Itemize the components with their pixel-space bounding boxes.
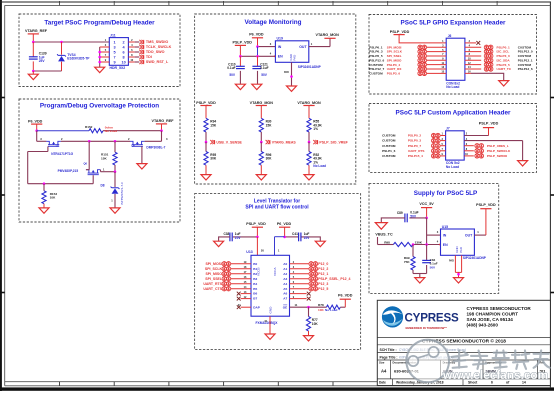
- svg-text:Voltage Monitoring: Voltage Monitoring: [245, 19, 302, 26]
- node SPI_MISO: [205, 271, 251, 276]
- svg-text:10K: 10K: [312, 322, 319, 326]
- wire Q6 source to bottom net: [28, 175, 94, 184]
- svg-text:15K: 15K: [266, 123, 273, 127]
- wire gnd bus pins 3 5 7 9: [100, 47, 110, 67]
- svg-text:PSoC 5LP Custom Application He: PSoC 5LP Custom Application Header: [396, 110, 511, 117]
- svg-text:C38: C38: [223, 232, 229, 236]
- resistor R96: [259, 142, 272, 175]
- svg-text:P12_2: P12_2: [318, 267, 328, 271]
- svg-text:PSLP_XRES_L: PSLP_XRES_L: [487, 144, 509, 148]
- svg-text:P12_0: P12_0: [318, 262, 328, 266]
- node PSLP0_7: [382, 143, 446, 148]
- svg-text:CYPRESS: CYPRESS: [405, 311, 459, 324]
- junction: [290, 75, 293, 78]
- svg-text:www.elecfans.com: www.elecfans.com: [442, 368, 548, 382]
- date row: [379, 379, 526, 386]
- junction: [256, 236, 259, 239]
- svg-text:PSLP_VDD: PSLP_VDD: [476, 203, 496, 207]
- svg-text:P6_VDD: P6_VDD: [249, 32, 264, 36]
- svg-text:25V: 25V: [39, 59, 46, 63]
- node P6_VDD: [28, 119, 43, 130]
- node PSLP_VDD: [233, 41, 253, 57]
- svg-text:P12_3: P12_3: [318, 282, 328, 286]
- resistor R77: [306, 307, 318, 335]
- node PSLP_VDD: [246, 222, 266, 237]
- junction: [98, 56, 101, 59]
- svg-text:TDI: TDI: [146, 55, 152, 59]
- svg-text:PSLP_VDD: PSLP_VDD: [479, 121, 499, 125]
- svg-text:10: 10: [121, 60, 125, 64]
- transistor Q6: [58, 141, 115, 174]
- svg-text:50V: 50V: [430, 266, 436, 270]
- svg-text:Supply for PSoC 5LP: Supply for PSoC 5LP: [414, 190, 478, 197]
- wire VCC to IN pin: [427, 218, 441, 245]
- svg-text:UART_RTS: UART_RTS: [203, 282, 222, 286]
- svg-text:HDR_5X2: HDR_5X2: [110, 66, 126, 70]
- node PSLP_VDD: [196, 101, 216, 118]
- ground: [28, 71, 38, 80]
- junction: [114, 170, 117, 173]
- node SPI_SSEL: [369, 53, 446, 58]
- svg-text:EMBEDDED IN TOMORROW™: EMBEDDED IN TOMORROW™: [406, 326, 448, 330]
- svg-text:10K: 10K: [318, 308, 324, 312]
- svg-text:CYPRESS SEMICONDUCTOR: CYPRESS SEMICONDUCTOR: [467, 306, 532, 311]
- ground: [214, 241, 224, 246]
- svg-text:Date: Date: [379, 381, 386, 385]
- svg-text:B6: B6: [253, 292, 257, 296]
- op-amp U19 load switch: [270, 37, 322, 69]
- svg-text:198 CHAMPION COURT: 198 CHAMPION COURT: [467, 312, 519, 317]
- node VTARG_MON: [250, 101, 274, 118]
- svg-text:A4: A4: [381, 369, 387, 374]
- svg-text:130K: 130K: [415, 241, 423, 245]
- svg-text:25V: 25V: [304, 236, 311, 240]
- node VTARG_MON: [297, 101, 321, 118]
- svg-text:No Load: No Load: [446, 165, 459, 169]
- wire J7 pin 2 to PSLP_VDD: [464, 133, 488, 136]
- junction: [260, 141, 263, 144]
- svg-text:PSLP15_4: PSLP15_4: [408, 154, 423, 158]
- svg-text:1: 1: [114, 40, 116, 44]
- svg-text:P6_VDD: P6_VDD: [28, 119, 43, 123]
- svg-text:SPI and UART flow control: SPI and UART flow control: [245, 205, 309, 211]
- junction: [98, 51, 101, 54]
- node PSLP0_2: [382, 133, 446, 138]
- svg-text:SPI_MISO: SPI_MISO: [205, 272, 222, 276]
- node P6_VDD: [338, 293, 353, 307]
- section box: Supply for PSoC 5LP: [369, 183, 499, 293]
- node P12_0: [290, 261, 329, 266]
- resistor R152: [37, 125, 162, 133]
- svg-text:Target PSoC Program/Debug Head: Target PSoC Program/Debug Header: [44, 20, 155, 27]
- watermark elecfans: [406, 340, 549, 383]
- wire VTARG to Q8: [161, 131, 163, 142]
- wire to J6 pin 1: [429, 40, 446, 43]
- svg-text:No Load: No Load: [105, 129, 117, 133]
- svg-text:OE: OE: [283, 305, 287, 309]
- svg-text:(408) 943-2600: (408) 943-2600: [467, 323, 499, 328]
- node VBUS_TC: [375, 232, 393, 244]
- svg-text:30K: 30K: [266, 157, 273, 161]
- svg-text:VTARG_MON: VTARG_MON: [297, 101, 321, 105]
- svg-text:5: 5: [114, 50, 116, 54]
- svg-text:10K: 10K: [50, 196, 56, 200]
- diode D8: [101, 172, 124, 208]
- section box: Voltage Monitoring: [195, 14, 356, 184]
- svg-text:PAD: PAD: [459, 247, 463, 253]
- svg-text:OUT: OUT: [299, 45, 307, 49]
- svg-text:B1: B1: [253, 267, 257, 271]
- node PSLP_SIO_VREF: [313, 140, 348, 144]
- svg-text:15K: 15K: [101, 156, 107, 160]
- node PSLP3_0: [465, 53, 532, 58]
- node PSLP_SSEL_P12_4: [290, 276, 351, 281]
- svg-text:A6: A6: [283, 292, 287, 296]
- node VTARG_MEAS: [266, 140, 297, 144]
- node PSLP_SWDIO: [464, 153, 508, 158]
- svg-text:PSLP_SSEL_P12_4: PSLP_SSEL_P12_4: [318, 277, 350, 281]
- capacitor C38: [219, 232, 258, 242]
- svg-text:PSLP12_6: PSLP12_6: [518, 67, 533, 71]
- svg-text:PAD: PAD: [293, 55, 297, 61]
- svg-text:Q7: Q7: [56, 144, 60, 148]
- node UART_RX: [369, 66, 446, 71]
- ground: [304, 175, 314, 180]
- svg-text:U13: U13: [246, 250, 252, 254]
- resistor R151: [101, 141, 117, 171]
- section box: Target PSoC Program/Debug Header: [19, 14, 180, 87]
- capacitor C89: [381, 211, 426, 223]
- connector J6: [446, 34, 465, 89]
- wire VCCA supply: [275, 237, 285, 256]
- resistor R78: [318, 303, 345, 312]
- pin numbers J11 left: [105, 38, 107, 62]
- ground: [256, 175, 266, 180]
- svg-text:PMV48XP,215: PMV48XP,215: [58, 169, 79, 173]
- ground: [252, 84, 262, 89]
- resistor R99: [404, 245, 415, 274]
- capacitor C121: [252, 56, 268, 84]
- svg-text:PSLP3_6: PSLP3_6: [387, 71, 401, 75]
- junction: [425, 243, 428, 246]
- svg-text:P6_VDD: P6_VDD: [338, 293, 353, 297]
- section box: PSoC 5LP Custom Application Header: [369, 104, 537, 173]
- node UART_CTS: [203, 286, 251, 291]
- node VCC_5V: [419, 202, 434, 218]
- no-connect B6: [237, 291, 251, 296]
- resistor R52: [307, 142, 326, 175]
- svg-text:SPI_SSEL: SPI_SSEL: [205, 277, 223, 281]
- size document row: [379, 360, 546, 379]
- node P12_3: [290, 281, 329, 286]
- ground: [39, 208, 49, 213]
- svg-text:15K: 15K: [210, 123, 217, 127]
- node UART_RTS: [382, 148, 446, 153]
- node PSLP15_4: [382, 153, 446, 158]
- svg-text:A3: A3: [283, 277, 287, 281]
- section box: Program/Debug Overvoltage Protection: [19, 99, 180, 222]
- svg-text:B3: B3: [253, 277, 257, 281]
- pin numbers J11 right: [130, 38, 133, 62]
- wire OE net: [290, 303, 327, 307]
- svg-text:DAP: DAP: [253, 305, 260, 309]
- svg-text:75K: 75K: [404, 260, 410, 264]
- node P12_5: [290, 286, 329, 291]
- node PSLP0_3: [382, 138, 446, 143]
- svg-text:7: 7: [114, 55, 116, 59]
- junction: [98, 61, 101, 64]
- section title: [245, 199, 309, 211]
- svg-text:TCLK_SWCLK: TCLK_SWCLK: [146, 45, 172, 49]
- no-connect J6 pin 2: [465, 40, 480, 45]
- svg-text:A0: A0: [283, 262, 287, 266]
- wire EN net: [240, 55, 275, 57]
- no-connect B7: [237, 296, 251, 301]
- svg-text:VTARG_REF: VTARG_REF: [25, 29, 48, 33]
- svg-text:PSLP_VDD: PSLP_VDD: [246, 222, 266, 226]
- svg-text:20: 20: [261, 249, 264, 253]
- svg-text:0.1uF: 0.1uF: [227, 66, 235, 70]
- svg-text:Page Title :: Page Title :: [380, 355, 398, 359]
- svg-text:6: 6: [123, 50, 125, 54]
- svg-text:TMS_SWDIO: TMS_SWDIO: [146, 40, 168, 44]
- svg-text:CUSTOM: CUSTOM: [382, 154, 396, 158]
- svg-text:PSoC 5LP GPIO Expansion Header: PSoC 5LP GPIO Expansion Header: [401, 19, 506, 26]
- node TDO_SWO: [128, 50, 164, 54]
- junction: [32, 70, 35, 73]
- wire U13 GND pin: [264, 316, 270, 334]
- svg-text:C41: C41: [292, 232, 298, 236]
- svg-text:CUSTOM: CUSTOM: [382, 134, 396, 138]
- junction: [425, 217, 428, 220]
- svg-text:No Load: No Load: [446, 85, 459, 89]
- svg-text:PSLP_SWDCLK: PSLP_SWDCLK: [487, 149, 511, 153]
- svg-text:0.1uF: 0.1uF: [260, 66, 268, 70]
- junction: [114, 140, 117, 143]
- node TDI: [128, 55, 151, 59]
- wire RC to ground: [413, 274, 427, 278]
- svg-text:P6_VDD: P6_VDD: [277, 222, 292, 226]
- svg-text:VTARG_REF: VTARG_REF: [152, 119, 175, 123]
- node SWD_RST_L: [128, 60, 169, 64]
- svg-text:NTR4171PT1G: NTR4171PT1G: [51, 152, 73, 156]
- junction: [239, 55, 242, 58]
- junction: [307, 306, 310, 309]
- wire U15 pad to ground: [449, 255, 462, 277]
- svg-text:VCC_5V: VCC_5V: [419, 202, 434, 206]
- ground: [265, 334, 275, 339]
- svg-text:SPI_SCLK: SPI_SCLK: [205, 267, 223, 271]
- svg-text:2: 2: [123, 40, 125, 44]
- resistor R98: [384, 240, 440, 247]
- resistor R30: [259, 118, 272, 142]
- svg-text:P12_5: P12_5: [318, 287, 328, 291]
- resistor R55: [307, 118, 323, 142]
- no-connect DAP pin 21: [237, 303, 251, 309]
- svg-text:DMP3098L-7: DMP3098L-7: [146, 146, 165, 150]
- svg-text:EN: EN: [443, 243, 448, 247]
- svg-text:UART_TX: UART_TX: [497, 67, 512, 71]
- junction: [160, 129, 163, 132]
- svg-text:D8: D8: [101, 183, 105, 187]
- svg-text:UART_RTS: UART_RTS: [408, 149, 425, 153]
- svg-text:A4: A4: [283, 282, 287, 286]
- svg-text:No Load: No Load: [313, 164, 326, 168]
- node UART_TX: [465, 66, 533, 71]
- wire vertical to EN net: [257, 47, 259, 57]
- junction: [412, 243, 415, 246]
- node PSLP_XRES_L: [464, 143, 509, 148]
- ground: [518, 161, 528, 166]
- svg-text:PAD: PAD: [449, 259, 454, 262]
- svg-text:Program/Debug Overvoltage Prot: Program/Debug Overvoltage Protection: [40, 103, 159, 110]
- svg-text:PSLP0_2: PSLP0_2: [408, 134, 422, 138]
- resistor R153: [42, 184, 57, 208]
- svg-text:VBUS_TC: VBUS_TC: [375, 232, 393, 236]
- ground: [375, 223, 387, 230]
- svg-text:CUSTOM: CUSTOM: [382, 144, 396, 148]
- svg-text:B5: B5: [253, 287, 257, 291]
- node PSLP_VDD output: [474, 203, 496, 235]
- svg-text:50V: 50V: [229, 73, 236, 77]
- section box: Level Translator: [195, 194, 361, 350]
- ground: [95, 67, 105, 72]
- capacitor C110: [227, 56, 245, 84]
- cypress logo: [382, 306, 459, 330]
- svg-text:UART_CTS: UART_CTS: [203, 287, 222, 291]
- node VTARG_REF: [25, 29, 48, 42]
- ground: [287, 86, 297, 91]
- capacitor C41: [285, 232, 321, 242]
- wire Q7 gate net: [28, 146, 48, 183]
- resistor R95: [204, 142, 217, 175]
- svg-text:SIP32401ADNP: SIP32401ADNP: [463, 256, 487, 260]
- svg-text:EN: EN: [278, 55, 283, 59]
- node I2C_SCL: [465, 49, 533, 54]
- svg-text:B4: B4: [253, 282, 257, 286]
- transistor Q7: [37, 131, 74, 156]
- title block: [377, 300, 550, 385]
- node PSLP_VDD: [390, 30, 429, 43]
- svg-text:50V: 50V: [410, 214, 417, 218]
- svg-text:VTARG_MON: VTARG_MON: [316, 33, 340, 37]
- svg-text:Q6: Q6: [84, 162, 88, 166]
- svg-text:VTARG_MEAS: VTARG_MEAS: [272, 140, 297, 144]
- svg-text:R152: R152: [85, 125, 93, 129]
- node PSLP3_5: [465, 62, 532, 67]
- node UART_RTS: [203, 281, 251, 286]
- node SPI_MISO: [369, 58, 446, 63]
- junction: [308, 141, 311, 144]
- svg-text:1%: 1%: [313, 127, 318, 131]
- node PSLP_SWDCLK: [464, 148, 511, 153]
- svg-text:CUSTOM: CUSTOM: [382, 139, 396, 143]
- node PSLP_VDD: [479, 121, 499, 135]
- svg-text:GND: GND: [269, 306, 273, 314]
- resistor R94: [204, 118, 217, 142]
- node P12_1: [290, 271, 329, 276]
- svg-text:U15: U15: [442, 225, 448, 229]
- svg-text:IN: IN: [443, 233, 447, 237]
- wire cap to tvs bottom: [33, 70, 61, 72]
- junction: [88, 140, 91, 143]
- svg-text:A2: A2: [283, 272, 287, 276]
- svg-text:B2: B2: [253, 272, 257, 276]
- node I2C_SDA: [465, 58, 533, 63]
- svg-text:PSLP_VDD: PSLP_VDD: [390, 30, 410, 34]
- ground: [235, 84, 245, 89]
- transistor Q8: [128, 137, 168, 150]
- svg-text:C89: C89: [397, 211, 403, 215]
- svg-text:J6: J6: [448, 34, 452, 38]
- ground: [499, 81, 509, 86]
- svg-text:TDO_SWO: TDO_SWO: [146, 50, 165, 54]
- node TCLK_SWCLK: [128, 45, 171, 49]
- svg-text:9: 9: [114, 60, 116, 64]
- capacitor C84: [422, 245, 438, 274]
- node P6_VDD: [277, 222, 292, 237]
- svg-text:21: 21: [238, 303, 241, 307]
- svg-text:PSLP_SWDIO: PSLP_SWDIO: [487, 154, 508, 158]
- svg-text:SAN JOSE, CA 95134: SAN JOSE, CA 95134: [467, 317, 514, 322]
- tvs diode TVS4: [57, 42, 90, 71]
- wire U19 pad to ground: [284, 62, 292, 86]
- wire VCCB supply: [257, 237, 264, 255]
- company address: [467, 306, 532, 328]
- section box: PSoC 5LP GPIO Expansion Header: [369, 15, 537, 95]
- svg-text:R78: R78: [318, 303, 324, 307]
- svg-text:J11: J11: [110, 33, 116, 37]
- svg-text:30K: 30K: [210, 157, 217, 161]
- wire Q7 to Q8: [61, 140, 130, 142]
- svg-text:VTARG_MON: VTARG_MON: [250, 101, 274, 105]
- wire VTARG_REF to J11 pin 1: [33, 41, 109, 43]
- ground: [454, 278, 464, 283]
- ground: [110, 208, 120, 213]
- junction: [205, 141, 208, 144]
- svg-text:U19: U19: [277, 37, 283, 41]
- wire J6 pin 16 to ground: [465, 71, 504, 81]
- svg-text:PSLP0_7: PSLP0_7: [408, 144, 422, 148]
- svg-text:8: 8: [123, 55, 125, 59]
- svg-text:PAD: PAD: [284, 71, 289, 74]
- svg-text:25V: 25V: [235, 236, 242, 240]
- svg-text:B0: B0: [253, 262, 257, 266]
- junction: [256, 45, 259, 48]
- svg-text:PSLP_SIO_VREF: PSLP_SIO_VREF: [319, 140, 348, 144]
- junction: [60, 41, 63, 44]
- junction: [256, 55, 259, 58]
- no-connect A7: [290, 296, 311, 301]
- ground: [315, 241, 325, 246]
- wire J7 pin 4 to ground: [464, 138, 522, 161]
- svg-text:Size: Size: [379, 361, 385, 365]
- svg-text:PSLP_VDD: PSLP_VDD: [196, 101, 216, 105]
- no-connect A6: [290, 291, 311, 296]
- svg-text:J7: J7: [446, 127, 450, 131]
- node PSLP3_6: [369, 71, 446, 76]
- node USB_V_SENSE: [210, 140, 242, 144]
- sch title row: [380, 348, 467, 352]
- node PSLP0_1: [465, 44, 532, 49]
- node TMS_SWDIO: [128, 40, 168, 44]
- svg-text:50V: 50V: [261, 73, 268, 77]
- capacitor C139: [29, 42, 47, 71]
- wire IN net: [258, 46, 276, 48]
- svg-text:P12_1: P12_1: [318, 272, 328, 276]
- junction: [457, 273, 460, 276]
- svg-text:SCH Title :: SCH Title :: [380, 348, 397, 352]
